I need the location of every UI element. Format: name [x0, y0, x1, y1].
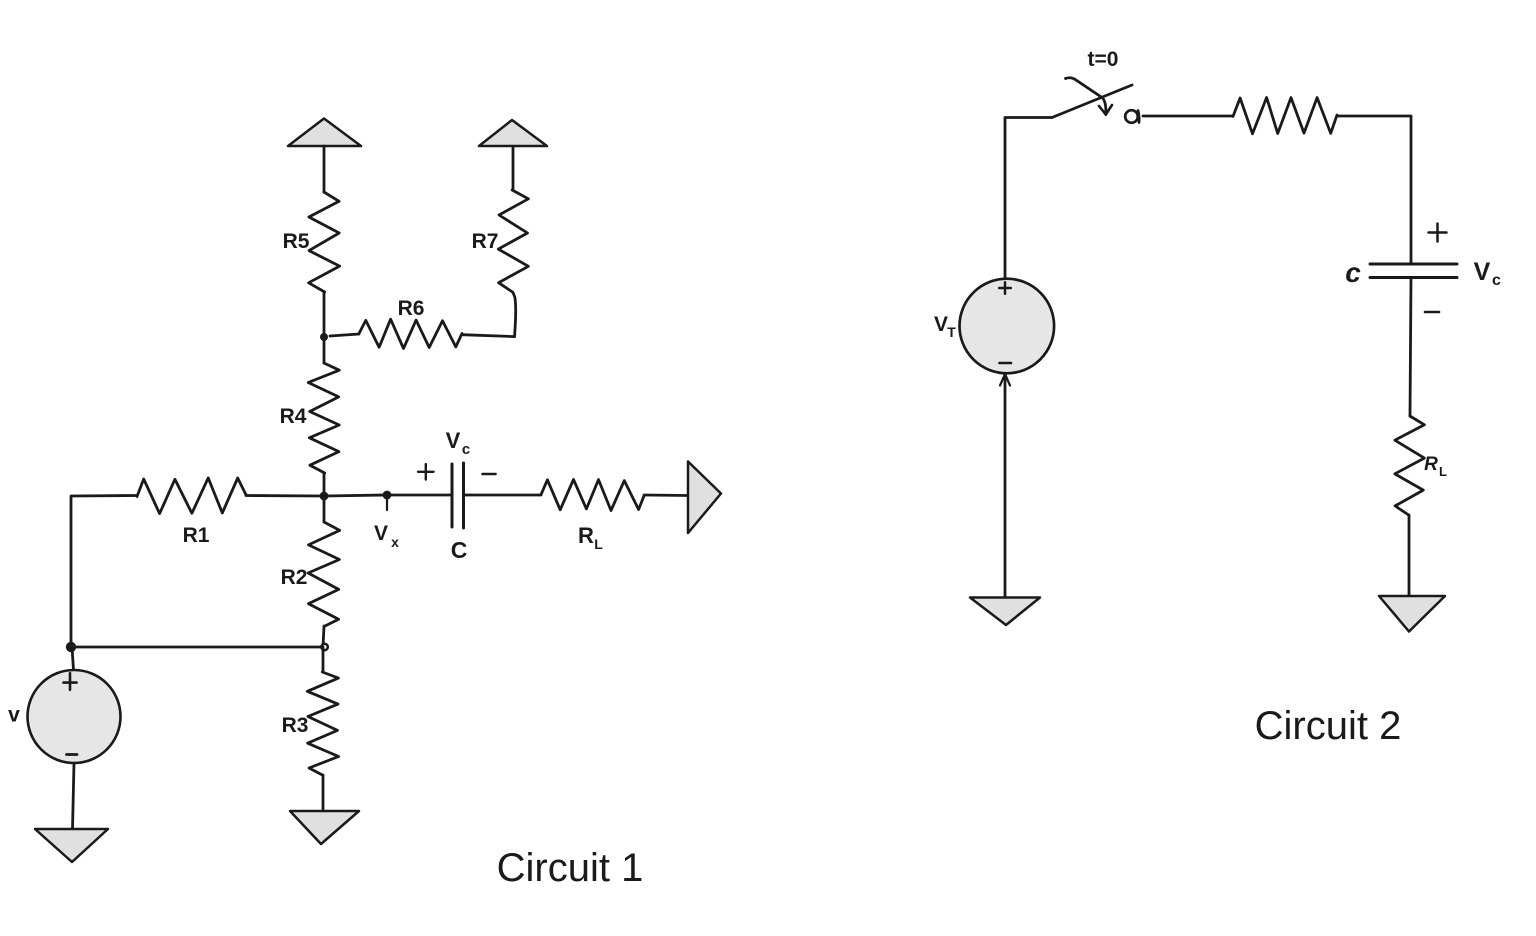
svg-text:c: c — [1345, 257, 1361, 288]
node A junction — [320, 333, 328, 341]
resistor R2 — [308, 522, 340, 626]
node Vx — [383, 491, 392, 500]
wire node B to R3 — [322, 647, 325, 672]
label − (C2) — [1425, 311, 1439, 314]
resistor R6 — [359, 319, 462, 348]
label + inside VT — [999, 287, 1011, 290]
wire node X to node Vx — [324, 495, 387, 496]
svg-text:R7: R7 — [472, 230, 499, 253]
capacitor C right plate — [462, 463, 465, 528]
wire VCC to R5 — [323, 146, 326, 192]
wire Vx to capacitor C — [387, 494, 450, 497]
svg-text:R: R — [578, 523, 594, 548]
wire node to v source — [72, 647, 74, 670]
capacitor C2 top plate — [1370, 263, 1457, 266]
svg-text:R1: R1 — [183, 524, 210, 547]
svg-text:C: C — [451, 537, 468, 563]
label + (C left) — [418, 471, 434, 473]
voltage source VT — [960, 279, 1055, 374]
svg-text:Circuit 1: Circuit 1 — [497, 846, 644, 890]
svg-text:R5: R5 — [283, 230, 310, 253]
svg-text:T: T — [947, 324, 956, 340]
wire node B to source node — [71, 646, 322, 649]
wire C2 to RL — [1410, 278, 1411, 417]
wire node A to R6 — [330, 334, 359, 336]
ground (VT) — [970, 598, 1040, 626]
wire switch to resistor — [1143, 115, 1233, 118]
wire resistor to corner — [1337, 116, 1411, 264]
wire VT to switch — [1005, 118, 1052, 280]
wire VT to ground with arrow — [1004, 374, 1007, 597]
wire R2 to node B — [323, 626, 324, 647]
svg-text:V: V — [934, 313, 948, 336]
resistor (circuit 2, unlabeled) — [1233, 98, 1337, 134]
svg-text:v: v — [8, 704, 20, 727]
resistor R5 — [309, 192, 340, 292]
svg-text:Circuit 2: Circuit 2 — [1255, 704, 1402, 748]
capacitor C left plate — [451, 464, 454, 527]
ground (RL circuit 2) — [1379, 596, 1445, 632]
arrowhead up (VT wire) — [1000, 374, 1010, 386]
wire R5 to node A — [323, 292, 326, 337]
ground (v source) — [35, 829, 108, 862]
wire RL to ground — [1408, 515, 1411, 596]
switch terminal a — [1125, 110, 1138, 123]
label + inside v — [64, 681, 77, 684]
label + (C2) — [1429, 231, 1447, 234]
power rail VCC (right) — [479, 120, 547, 146]
wire R4 to node X — [323, 473, 326, 496]
label − (C right) — [483, 473, 496, 476]
svg-text:R2: R2 — [281, 566, 308, 589]
resistor R1 — [137, 478, 246, 514]
switch actuation arrow — [1066, 78, 1106, 115]
svg-text:L: L — [594, 536, 603, 552]
ground (R3) — [290, 811, 359, 844]
svg-text:V: V — [1474, 258, 1491, 286]
svg-text:c: c — [1492, 272, 1501, 289]
wire v source to ground — [73, 763, 75, 829]
wire R1 to node X — [246, 494, 324, 497]
node X junction — [320, 492, 329, 501]
switch blade — [1052, 85, 1132, 118]
svg-text:L: L — [1439, 464, 1447, 479]
label − inside VT — [1000, 362, 1012, 365]
wire R7 to VCC — [512, 146, 515, 190]
capacitor C2 bottom plate — [1370, 276, 1457, 279]
wire node X to R2 — [323, 496, 326, 522]
resistor RL (circuit 2) — [1395, 416, 1425, 515]
svg-text:R6: R6 — [398, 297, 425, 320]
wire R3 to ground — [322, 775, 325, 811]
resistor R4 — [308, 363, 339, 473]
svg-text:V: V — [446, 428, 461, 453]
svg-text:V: V — [374, 522, 388, 545]
wire v-source corner to R1 — [71, 496, 137, 648]
power rail VCC (left) — [288, 119, 361, 147]
resistor R7 — [498, 190, 528, 292]
wire capacitor to RL — [465, 494, 542, 497]
output port triangle — [688, 462, 721, 534]
source top node — [66, 642, 76, 652]
label − inside v — [67, 753, 78, 756]
svg-text:R3: R3 — [282, 714, 309, 737]
svg-text:t=0: t=0 — [1088, 48, 1119, 71]
resistor RL — [541, 480, 644, 511]
wire RL to output — [644, 494, 688, 497]
svg-text:R4: R4 — [280, 405, 307, 428]
node B open terminal — [321, 644, 327, 650]
svg-text:c: c — [462, 441, 470, 458]
svg-text:R: R — [1424, 454, 1438, 475]
voltage source v — [28, 670, 121, 763]
svg-text:x: x — [391, 534, 399, 550]
resistor R3 — [307, 672, 338, 775]
wire R6 to R7 — [462, 293, 516, 337]
wire node A to R4 — [323, 337, 326, 363]
tick below node Vx — [386, 498, 388, 510]
